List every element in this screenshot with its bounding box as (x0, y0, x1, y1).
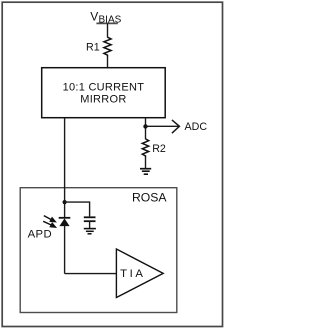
svg-text:APD: APD (28, 229, 52, 241)
svg-text:10:1 CURRENT: 10:1 CURRENT (63, 82, 145, 94)
svg-text:R1: R1 (86, 42, 100, 54)
svg-text:TIA: TIA (120, 268, 145, 280)
svg-text:V: V (90, 9, 98, 23)
svg-text:ADC: ADC (185, 121, 208, 133)
svg-text:ROSA: ROSA (132, 191, 167, 205)
svg-text:MIRROR: MIRROR (80, 94, 126, 106)
svg-text:R2: R2 (152, 143, 166, 155)
